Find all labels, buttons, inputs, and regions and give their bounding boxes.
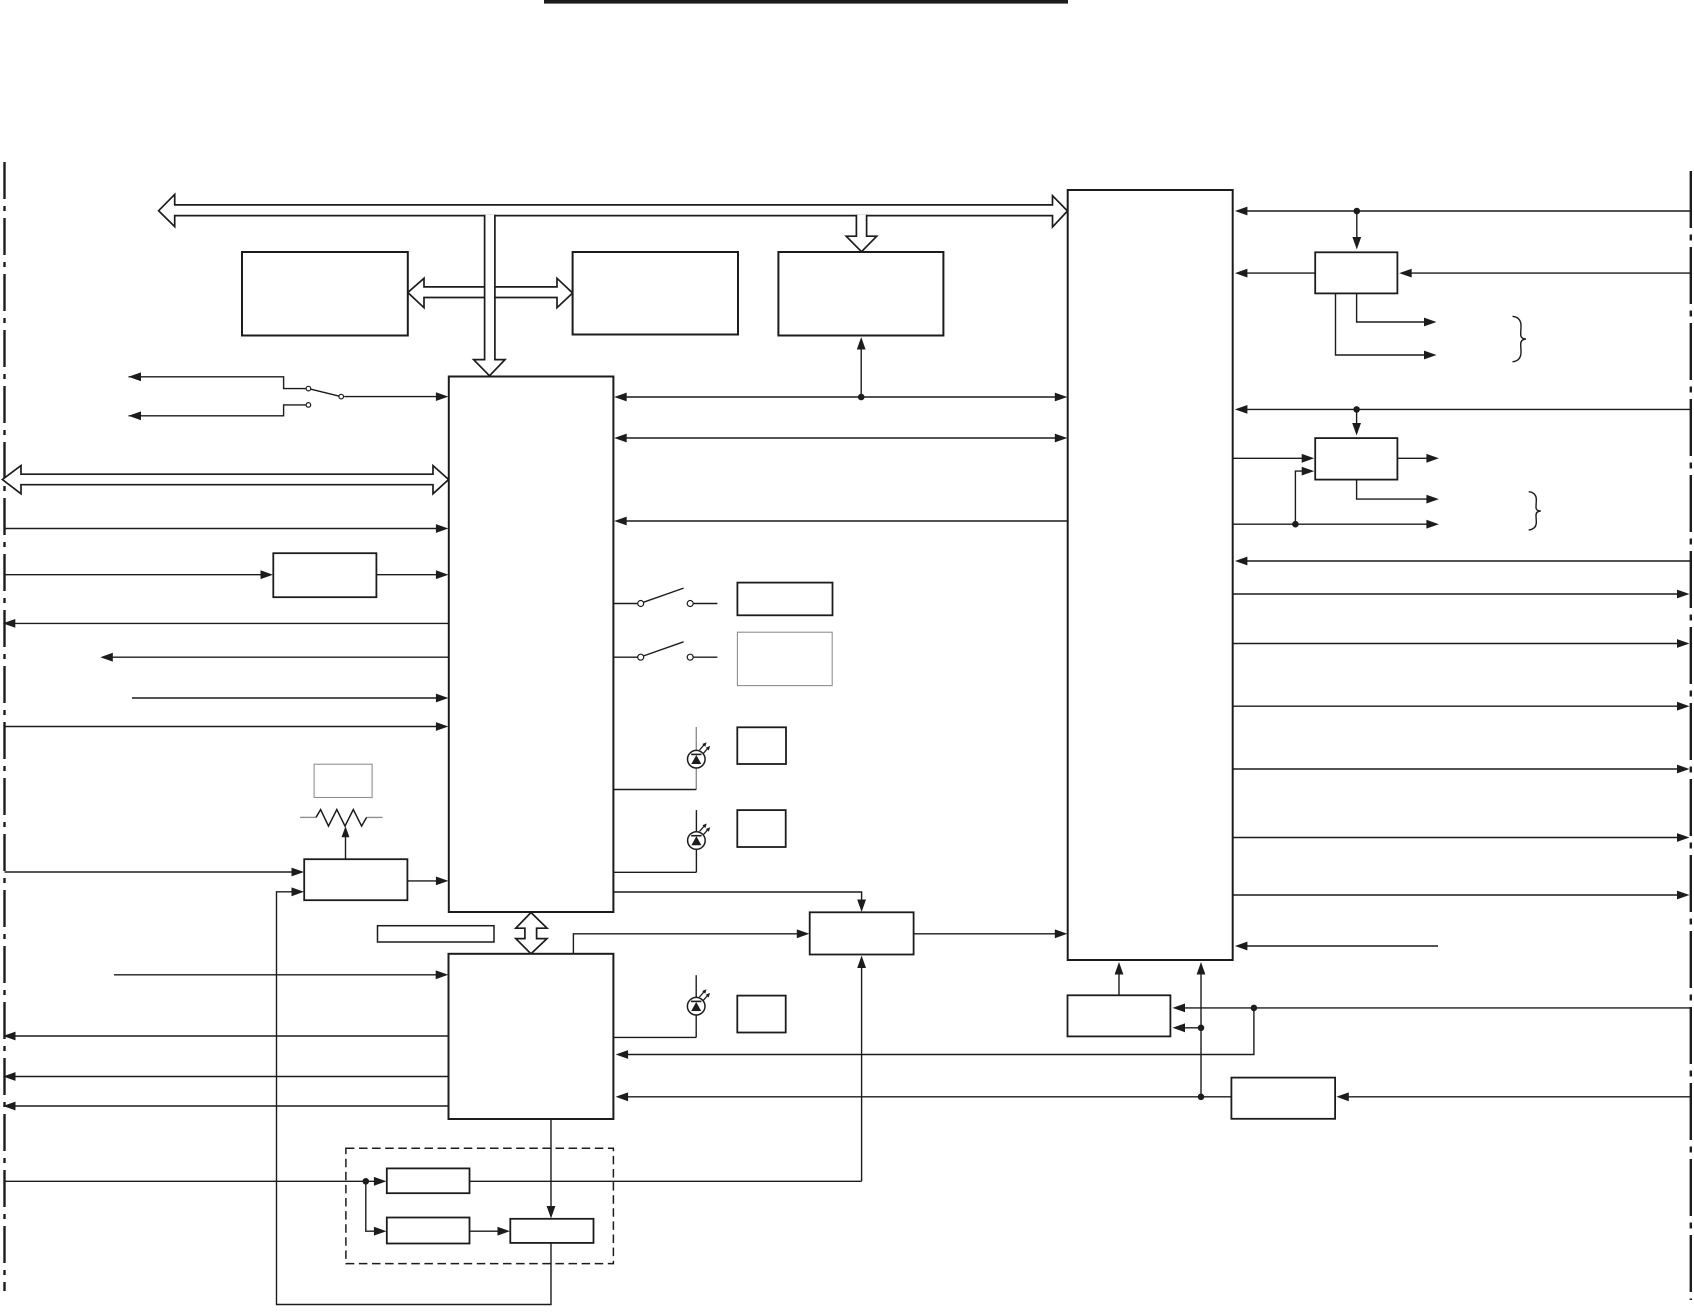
wire out of big box y623	[13, 622, 449, 624]
wire into ASIC right y946	[1246, 945, 1438, 947]
LED1 lead (gray)	[695, 727, 697, 790]
junction y211	[1354, 208, 1361, 215]
gray box above potentiometer	[314, 764, 372, 797]
wire ASIC to big box y521	[625, 520, 1068, 522]
main horizontal bus (hollow double-line arrow, both heads)	[159, 194, 1068, 227]
dashed enclosure box	[346, 1148, 614, 1263]
wire into big box y698	[132, 697, 437, 699]
arrow into box S	[261, 570, 274, 579]
wire page edge y1097 to box O	[1347, 1096, 1690, 1098]
cross bus bar between box A and box B (hollow, heads both ends)	[408, 278, 573, 307]
switch SW3 from big box	[613, 656, 637, 658]
feedback loop: box R bottom -> box H input 2	[277, 892, 552, 1305]
lower box I	[449, 954, 614, 1119]
LED2 anode wire	[613, 871, 696, 873]
SW2 contact b	[687, 601, 693, 607]
LED 2	[688, 832, 706, 850]
box F	[1315, 252, 1397, 293]
arrow into box P	[374, 1177, 387, 1186]
arrow into box L bottom	[857, 956, 866, 969]
branch down into box G	[1356, 409, 1358, 428]
junction y409	[1353, 406, 1360, 413]
LED3 anode wire	[613, 1036, 696, 1038]
wire: SW1 common to big box	[344, 396, 437, 398]
title underline	[544, 0, 1068, 4]
wire ASIC right y895 to page edge	[1233, 894, 1679, 896]
arrow into big box left (box S)	[436, 570, 449, 579]
switch SW2 from big box	[613, 603, 637, 605]
potentiometer wiper arrow line	[345, 830, 347, 859]
wire page edge y1008 to box N	[1184, 1007, 1690, 1009]
SW2 output to box D	[693, 603, 717, 605]
right page border (dash-dot)	[1690, 171, 1692, 1300]
arrow into box H in1	[292, 868, 305, 877]
box G output right	[1397, 457, 1427, 459]
box P	[387, 1168, 470, 1193]
LED 1	[688, 750, 706, 768]
wire from junction up to box C bottom	[860, 340, 862, 397]
box G input2 riser	[1295, 471, 1303, 524]
branch down into box F	[1356, 211, 1358, 242]
box D	[737, 583, 832, 616]
wire box F left into ASIC	[1246, 272, 1315, 274]
SW1 contact a	[306, 386, 311, 391]
vertical bus branch into box C (hollow, down arrow)	[846, 215, 877, 252]
LED3 lead	[695, 975, 697, 1037]
box S	[273, 553, 376, 597]
wire big box right y892 to box L top	[613, 892, 861, 902]
junction y1181	[363, 1178, 370, 1185]
arrow into box F right	[1399, 269, 1412, 278]
left big box (system control)	[449, 377, 614, 913]
arrow into box L top	[857, 900, 866, 913]
box E (gray)	[737, 632, 832, 685]
arrow SW1 lower input	[129, 411, 142, 420]
box G bottom output	[1357, 480, 1427, 500]
SW2 blade	[643, 588, 683, 602]
arrow into box I right	[616, 1050, 629, 1059]
wire: switch SW1 upper input	[129, 377, 307, 389]
wire box O left to box I right	[627, 1096, 1231, 1098]
SW3 blade	[643, 642, 683, 656]
box F output 2	[1336, 293, 1426, 355]
arrow into ASIC left	[1055, 929, 1068, 938]
wire box H output to big box	[407, 880, 437, 882]
wire box S to big box	[376, 574, 437, 576]
arrow into box Q	[374, 1227, 387, 1236]
wire ASIC y524 out	[1233, 523, 1427, 525]
wire box I top to box L left	[573, 934, 798, 954]
box M	[737, 996, 785, 1033]
box Q	[387, 1218, 470, 1244]
wire box L output to ASIC	[914, 933, 1056, 935]
box B	[573, 252, 738, 335]
junction y1008	[1251, 1005, 1258, 1012]
junction y397	[858, 394, 865, 401]
arrow into box O right	[1336, 1092, 1349, 1101]
wire out of box I y1036	[13, 1035, 449, 1037]
SW1 contact common	[339, 394, 344, 399]
wire: switch SW1 lower input	[129, 405, 307, 416]
wire ASIC right y769 to page edge	[1233, 768, 1679, 770]
wire out of box I y1076	[13, 1076, 449, 1078]
box C	[778, 252, 943, 336]
potentiometer leads (gray)	[300, 816, 316, 818]
switch SW1 blade	[311, 389, 339, 396]
box O	[1231, 1078, 1335, 1119]
box H	[304, 859, 407, 900]
wire up into box L bottom	[861, 966, 863, 1181]
box R	[510, 1219, 593, 1243]
potentiometer zigzag	[316, 810, 367, 827]
arrow SW1 upper input	[129, 372, 142, 381]
arrow into box L left	[797, 929, 810, 938]
short wire into box N right from riser	[1184, 1027, 1201, 1029]
wire ASIC right y643.5 to page edge	[1233, 643, 1679, 645]
right tall box (ASIC)	[1068, 190, 1233, 960]
wire into box H input 1	[5, 871, 294, 873]
wire ASIC right y594 to page edge	[1233, 593, 1679, 595]
wire ASIC right y409 to page edge	[1246, 408, 1690, 410]
arrow into box G top	[1352, 423, 1361, 436]
wire ASIC right y561 to page edge	[1246, 560, 1690, 562]
SW3 contact a	[638, 654, 644, 660]
SW3 output to box E	[693, 656, 717, 658]
wire ASIC right y211 to page edge	[1246, 210, 1690, 212]
LED1 anode wire	[613, 789, 696, 791]
box K	[737, 810, 785, 847]
arrow into box C bottom	[857, 337, 866, 350]
branch down and left to box I right y1054	[627, 1008, 1254, 1055]
arrow into box R	[498, 1227, 511, 1236]
branch down to box Q	[366, 1181, 375, 1231]
arrow into box N right	[1173, 1004, 1186, 1013]
wire page edge into box F right	[1410, 272, 1690, 274]
wire into big box y726	[5, 726, 438, 728]
vertical hollow double arrow between big box and lower box	[516, 913, 547, 954]
box L	[810, 912, 914, 954]
box N	[1068, 995, 1171, 1036]
LED 3	[687, 997, 705, 1015]
SW1 contact b	[306, 403, 311, 408]
wire ASIC right y706.2 to page edge	[1233, 705, 1679, 707]
long wire y1181 from border to box P and on to box L riser	[5, 1180, 376, 1182]
wire from border to box S	[5, 574, 263, 576]
LED2 lead	[695, 810, 697, 872]
curly brace 2	[1529, 492, 1541, 530]
left hollow double-headed bus arrow (to page edge)	[2, 466, 448, 494]
wire into box I left y975	[114, 974, 437, 976]
box J	[737, 727, 786, 764]
wiper arrowhead	[342, 826, 350, 837]
wire big box to ASIC y397	[625, 396, 1056, 398]
SW3 contact b	[687, 654, 693, 660]
arrow into box F top	[1352, 237, 1361, 250]
left page border (dash-dot)	[3, 162, 5, 1291]
wire box I bottom to box R top	[550, 1119, 552, 1208]
curly brace 1	[1513, 316, 1527, 362]
wire big box to ASIC y438	[625, 437, 1056, 439]
wire ASIC to box G input1	[1233, 457, 1303, 459]
box A	[242, 252, 408, 336]
SW2 contact a	[638, 601, 644, 607]
riser x1201 into ASIC bottom	[1200, 973, 1202, 1097]
arrow into big box left (SW1)	[436, 392, 449, 401]
wire into big box left y528	[5, 528, 438, 530]
wire out of big box y657	[111, 656, 449, 658]
vertical bus branch into left big box (hollow, down arrow)	[474, 215, 505, 376]
wire out of box I y1106	[13, 1105, 449, 1107]
thin bus label box	[378, 926, 495, 942]
wire box Q to box R	[470, 1230, 500, 1232]
wire box N up into ASIC bottom	[1118, 973, 1120, 995]
box G	[1315, 438, 1397, 480]
arrow into box R top	[547, 1206, 556, 1219]
wire ASIC right y837.5 to page edge	[1233, 837, 1679, 839]
arrow into box H in2	[292, 887, 305, 896]
box F output 1	[1357, 293, 1425, 322]
